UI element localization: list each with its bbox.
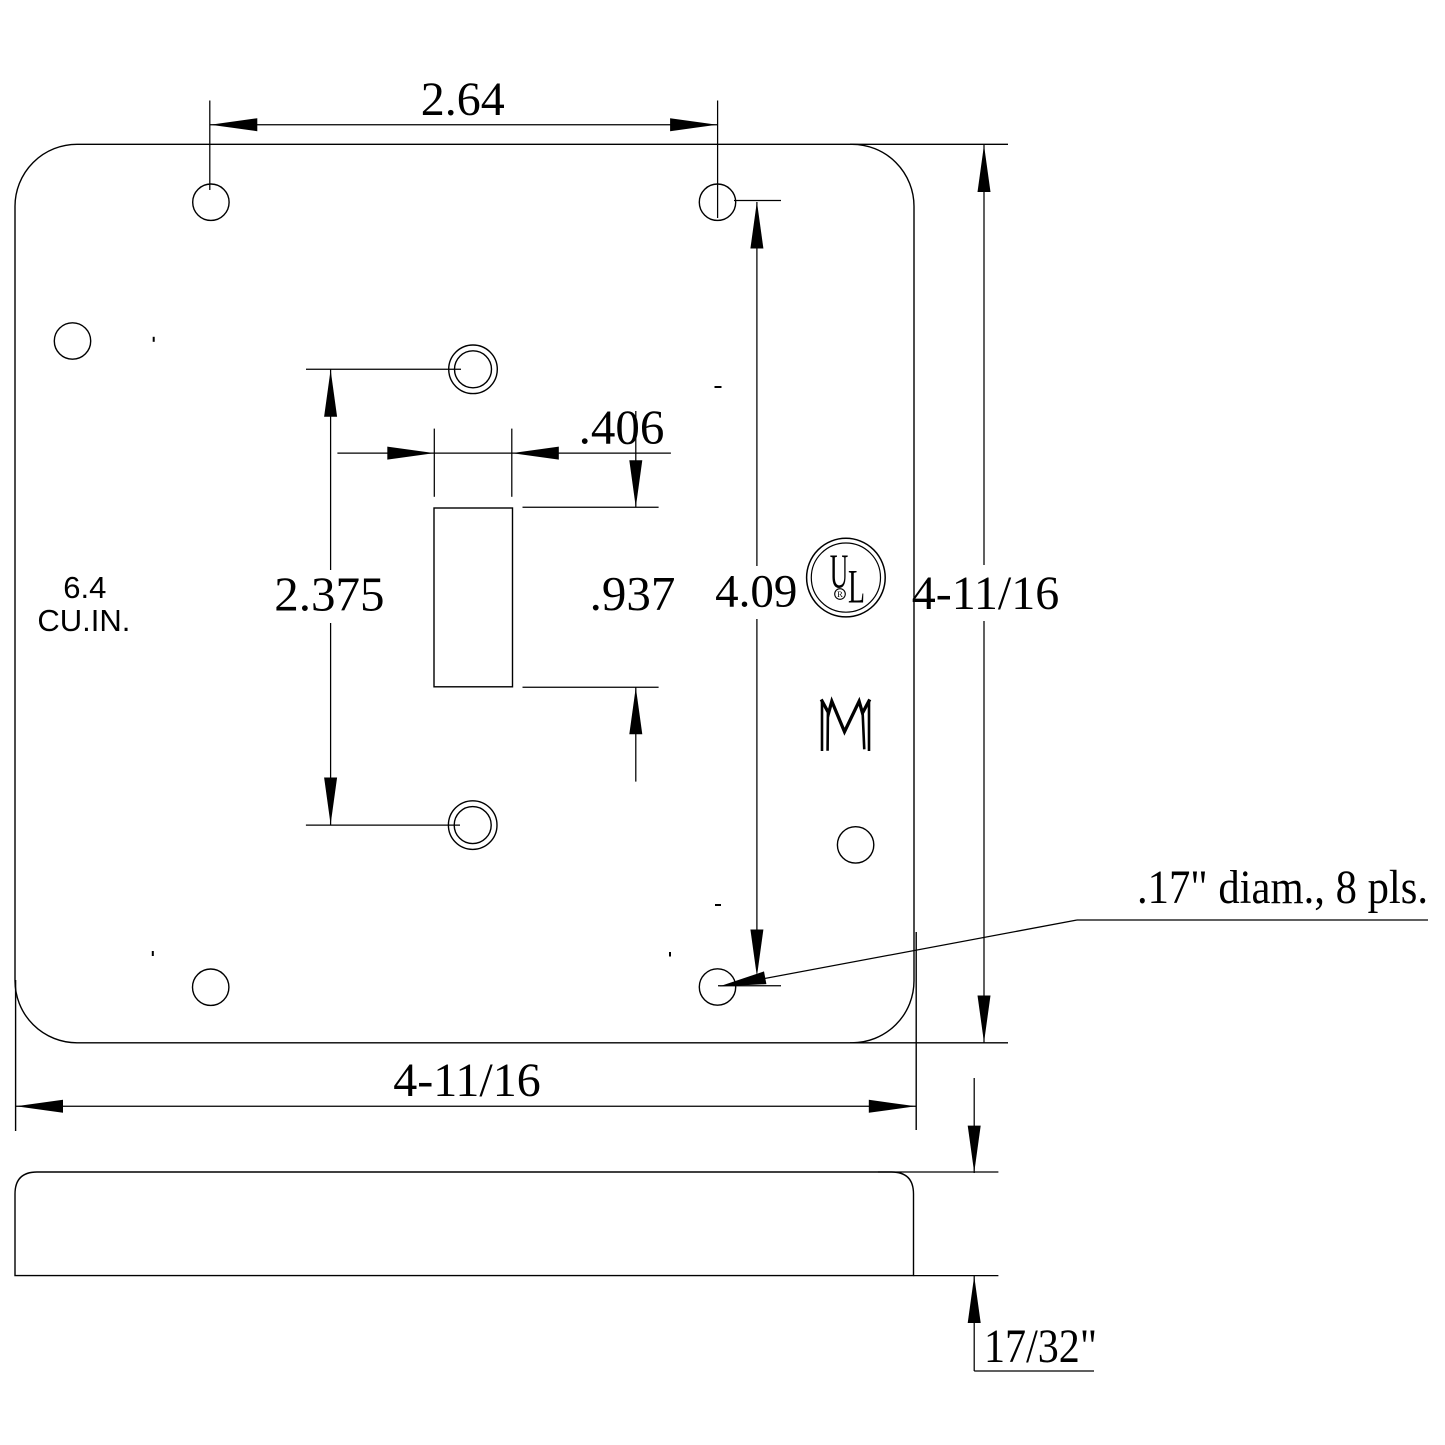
ringed screw hole top (outer) xyxy=(449,345,498,394)
arrow dim 4-11/16 right top xyxy=(978,145,991,192)
dim 17/32: bottom extension line xyxy=(914,1275,999,1277)
hole bottom-left xyxy=(193,969,229,1005)
small dash mark below top-right hole xyxy=(715,386,722,388)
extension line: right side for bottom width dim xyxy=(915,932,917,1130)
ringed screw hole top (inner) xyxy=(455,351,492,388)
arrow dim .937 top xyxy=(629,460,642,507)
svg-text:CU.IN.: CU.IN. xyxy=(37,603,130,638)
small tick mark left xyxy=(153,337,155,342)
arrow dim 17/32 bottom xyxy=(968,1276,981,1323)
small tick mark above bottom-left hole xyxy=(152,951,154,956)
side profile view of plate xyxy=(15,1172,914,1276)
svg-text:6.4: 6.4 xyxy=(63,570,106,605)
dim 17/32: top extension line xyxy=(878,1171,998,1173)
hole bottom-right xyxy=(699,969,735,1005)
arrow dim 2.375 bottom xyxy=(324,778,337,825)
arrow dim 4-11/16 bottom left xyxy=(16,1100,63,1113)
dim 17/32: vertical line below xyxy=(973,1276,975,1371)
dim .406: right extension line xyxy=(511,429,513,497)
dim 2.64: left extension line xyxy=(209,101,211,191)
hole left middle xyxy=(54,323,90,359)
arrow dim .406 right xyxy=(512,447,559,460)
dim 2.64: right extension line xyxy=(717,101,719,219)
hole right lower xyxy=(837,827,873,863)
svg-text:.17" diam., 8 pls.: .17" diam., 8 pls. xyxy=(1137,861,1428,914)
dim 4-11/16 right: dimension line upper segment xyxy=(983,145,985,565)
UL logo registered mark circle xyxy=(835,589,846,600)
dim 2.375: dimension line lower segment xyxy=(330,623,332,825)
svg-text:2.375: 2.375 xyxy=(274,567,384,622)
switch opening rectangle xyxy=(434,508,513,687)
dim .937: top extension line xyxy=(523,506,659,508)
dim 4-11/16 right: dimension line lower segment xyxy=(983,621,985,1043)
arrow dim 4.09 bottom xyxy=(750,930,763,977)
leader text underline xyxy=(1077,919,1428,921)
svg-text:.406: .406 xyxy=(579,400,665,455)
arrow dim .937 bottom xyxy=(629,687,642,734)
extension line: bottom edge extended right xyxy=(850,1042,1008,1044)
arrow dim 2.64 right xyxy=(670,118,717,131)
svg-text:.937: .937 xyxy=(590,566,676,621)
small dash mark above bottom-right hole xyxy=(715,904,721,906)
dim .406: left extension line xyxy=(433,429,435,497)
ringed screw hole bottom (inner) xyxy=(454,807,491,844)
UL logo inner circle xyxy=(811,543,880,612)
arrow dim 4-11/16 right bottom xyxy=(978,996,991,1043)
arrow dim 2.64 left xyxy=(210,118,257,131)
dim 2.64: dimension line xyxy=(210,124,718,126)
dim 4.09: top extension line xyxy=(734,200,781,202)
dim 4-11/16 bottom: dimension line xyxy=(16,1105,917,1107)
svg-text:4-11/16: 4-11/16 xyxy=(912,567,1060,620)
dim .406: dimension line xyxy=(337,452,671,454)
svg-text:2.64: 2.64 xyxy=(421,73,505,126)
svg-text:4-11/16: 4-11/16 xyxy=(393,1054,541,1107)
arrow dim 17/32 top xyxy=(968,1126,981,1173)
dim 2.375: bottom extension line xyxy=(306,824,460,826)
dim 2.375: top extension line xyxy=(306,368,461,370)
ringed screw hole bottom (outer) xyxy=(448,801,497,850)
dim 17/32: text shoulder line xyxy=(974,1370,1094,1372)
arrow dim 4.09 top xyxy=(750,202,763,249)
extension line: top edge extended right xyxy=(850,143,1008,145)
hole top-left xyxy=(193,184,229,220)
svg-text:L: L xyxy=(848,561,865,614)
hole top-right xyxy=(699,184,735,220)
arrow dim 4-11/16 bottom right xyxy=(869,1100,916,1113)
cover plate outline (front view) xyxy=(15,144,914,1043)
arrow dim 2.375 top xyxy=(324,370,337,417)
arrow leader .17 diam xyxy=(719,971,766,986)
dim .937: vertical line above opening xyxy=(635,411,637,508)
arrow dim .406 left xyxy=(387,447,434,460)
dim 17/32: vertical line above xyxy=(973,1078,975,1173)
extension line: left edge extended down xyxy=(15,980,17,1131)
dim .937: bottom extension line xyxy=(523,686,659,688)
dim 4.09: dimension line upper segment xyxy=(756,202,758,566)
svg-text:4.09: 4.09 xyxy=(715,566,797,618)
UL logo outer circle xyxy=(807,538,886,617)
manufacturer M logo xyxy=(822,701,869,750)
leader line for .17 diam callout xyxy=(761,920,1077,979)
dim .937: vertical line below opening xyxy=(635,687,637,782)
dim 4.09: bottom extension line xyxy=(718,985,781,987)
svg-text:17/32": 17/32" xyxy=(984,1320,1097,1373)
dim 2.375: dimension line upper segment xyxy=(330,369,332,570)
dim 4.09: dimension line lower segment xyxy=(756,619,758,940)
svg-text:R: R xyxy=(837,589,843,599)
small tick mark above bottom-right hole xyxy=(669,952,671,957)
